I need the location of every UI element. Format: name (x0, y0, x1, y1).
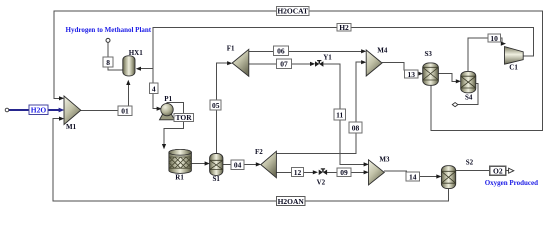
O2 product separator (441, 166, 455, 189)
mixer M3 (369, 160, 385, 185)
flash S4 (461, 71, 476, 92)
arrowhead into V2 (313, 170, 318, 174)
wire S3 to S4 (438, 74, 457, 82)
svg-text:F2: F2 (255, 148, 263, 156)
arrowhead 09 into M3 (364, 170, 369, 174)
arrowhead 11 into M3 (364, 162, 369, 166)
stream 14 label (406, 172, 420, 181)
stream H2OCAT label (277, 7, 310, 16)
wire 05: S1 top to F1 (216, 63, 228, 153)
wire H2OAN recycle: O2 separator bottom to M1 bottom input (53, 119, 449, 201)
wire 07: F1 bottom outlet to valve Y1 (249, 63, 312, 65)
arrowhead into P1 (157, 107, 162, 111)
svg-text:P1: P1 (164, 95, 172, 103)
svg-text:H2O: H2O (31, 106, 47, 115)
stream H2 label (337, 23, 351, 32)
arrowhead 06 into M4 (361, 49, 366, 53)
stream 12 label (292, 167, 304, 177)
mixer M1 (64, 96, 81, 125)
svg-text:S4: S4 (465, 93, 473, 101)
stream 07 label (277, 59, 292, 69)
arrowhead into S4 (456, 79, 461, 83)
svg-text:13: 13 (407, 70, 415, 79)
svg-text:R1: R1 (175, 174, 184, 182)
wire 04: S1 outlet to F2 (223, 163, 257, 165)
svg-text:07: 07 (280, 59, 288, 68)
flash S1 (210, 154, 223, 176)
svg-text:Y1: Y1 (323, 54, 332, 62)
svg-text:TOR: TOR (176, 113, 193, 122)
wire S4 bottom drain to diamond (458, 84, 478, 105)
arrowhead into R1 top (162, 144, 166, 149)
wire 08: F2 top outlet to M4 second input (276, 62, 362, 153)
export open arrow after O2 box (509, 168, 514, 173)
wire 09: V2 outlet to M3 bottom input (326, 171, 365, 173)
svg-text:Oxygen Produced: Oxygen Produced (485, 179, 538, 187)
wire H2O feed (blue) (9, 109, 61, 111)
svg-text:C1: C1 (509, 64, 518, 72)
stream 06 label (273, 46, 288, 56)
arrowhead into Y1 (310, 62, 315, 66)
arrowhead into M1 top (59, 96, 64, 100)
svg-text:14: 14 (409, 172, 417, 181)
stream 09 label (337, 168, 351, 177)
stream label boxes (29, 7, 506, 206)
stream TOR label (174, 113, 193, 122)
wire 8 product: HX1 left to export circle (108, 42, 123, 70)
stream 05 label (210, 100, 221, 110)
arrowhead 10 into C1 (501, 42, 506, 46)
stream 13 label (405, 70, 419, 79)
wire 06: F1 top outlet to M4 (249, 50, 363, 52)
wire H2 recycle: C1 outlet to HX1 right and pump feed (153, 27, 534, 108)
svg-text:S3: S3 (425, 50, 433, 58)
svg-text:M1: M1 (66, 123, 77, 131)
reactor R1 (169, 149, 192, 173)
wire 13: M4 outlet to S3 (382, 63, 404, 71)
svg-text:8: 8 (106, 58, 110, 67)
wire pump P1 outlet to reactor R1 (164, 102, 184, 145)
svg-text:HX1: HX1 (129, 49, 144, 57)
wire 14: M3 outlet to label box (384, 171, 406, 172)
wire 11: Y1 outlet to M3 top input (324, 64, 366, 164)
stream 04 label (231, 160, 244, 170)
wire S2: O2 separator outlet to O2 box (456, 170, 490, 172)
svg-text:V2: V2 (317, 178, 326, 186)
stream O2 label (490, 166, 506, 175)
stream 01 label (118, 106, 132, 116)
svg-text:05: 05 (212, 101, 220, 110)
heater HX1 (123, 56, 135, 76)
flash S3 (423, 63, 439, 85)
svg-text:01: 01 (121, 107, 129, 116)
wire 12: F2 bottom outlet to valve V2 (276, 171, 314, 173)
svg-text:09: 09 (340, 168, 348, 177)
wire 10: S4 top to compressor C1 (468, 38, 488, 71)
arrowhead into HX1 right (136, 67, 141, 71)
arrowhead H2O into M1 (blue) (59, 108, 65, 113)
svg-text:4: 4 (152, 84, 156, 93)
compressor C1 (505, 47, 524, 65)
valve Y1 (315, 60, 323, 67)
arrowhead 14 into O2 separator (436, 174, 441, 178)
svg-text:S2: S2 (466, 158, 474, 166)
wire 14b: label box to O2 separator (420, 176, 438, 178)
stream 4 label (149, 83, 158, 93)
svg-text:F1: F1 (227, 45, 235, 53)
wire R1 outlet to S1 (191, 163, 206, 165)
stream 10 label (488, 34, 500, 43)
wire O2 box to export arrow (506, 170, 509, 172)
wire branch into HX1 right side (140, 68, 154, 70)
arrowhead into F2 (256, 162, 261, 166)
arrowhead 08 into M4 (361, 60, 366, 64)
arrowhead into S1 (205, 161, 210, 165)
svg-text:M4: M4 (377, 46, 388, 54)
feed origin circle (5, 108, 9, 112)
stream H2O label (29, 105, 48, 114)
export circle for stream 8 (106, 38, 110, 42)
block labels (66, 45, 518, 187)
arrowhead into M1 bottom (59, 117, 64, 121)
stream H2OAN label (277, 197, 306, 206)
svg-text:H2: H2 (339, 23, 349, 32)
svg-text:Hydrogen to Methanol Plant: Hydrogen to Methanol Plant (66, 26, 152, 34)
svg-text:H2OAN: H2OAN (278, 197, 305, 206)
splitter F1 (232, 49, 249, 76)
pump P1 (160, 103, 175, 119)
svg-text:M3: M3 (379, 155, 390, 163)
stream 8 label (103, 57, 113, 67)
wire 01: M1 outlet to HX1 bottom (81, 83, 129, 111)
export diamond S4 drain (452, 103, 458, 107)
svg-text:04: 04 (234, 161, 242, 170)
svg-text:O2: O2 (493, 167, 503, 176)
svg-text:12: 12 (294, 168, 302, 177)
svg-text:S1: S1 (213, 175, 221, 183)
svg-text:H2OCAT: H2OCAT (277, 7, 308, 16)
valve V2 (319, 168, 327, 175)
svg-text:06: 06 (277, 47, 285, 56)
mixer M4 (366, 50, 382, 76)
splitter F2 (261, 151, 277, 178)
wire 10b: label box to C1 inlet (500, 38, 502, 44)
arrowhead into HX1 bottom (126, 80, 130, 85)
svg-text:10: 10 (490, 34, 498, 43)
svg-text:11: 11 (336, 111, 343, 120)
stream 11 label (334, 109, 346, 120)
stream 08 label (349, 122, 362, 133)
svg-text:08: 08 (352, 124, 360, 133)
arrowhead into F1 (227, 61, 232, 65)
arrowhead 13 into S3 (418, 72, 423, 76)
wire 13b: label box to S3 inlet (418, 73, 420, 75)
wire H2OCAT recycle: S3 bottom to M1 top input (54, 11, 542, 130)
